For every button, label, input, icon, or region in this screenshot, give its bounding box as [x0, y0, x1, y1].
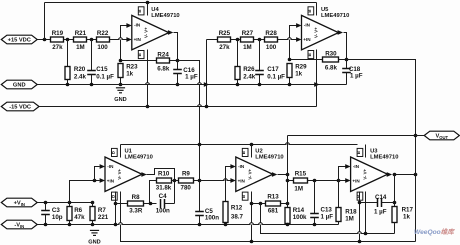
resistor R27 — [241, 37, 254, 42]
wire R30 to C18 node — [339, 59, 347, 61]
node U3 bal stub on rail4 — [358, 240, 362, 244]
svg-text:C15: C15 — [96, 66, 108, 73]
svg-text:100n: 100n — [205, 214, 219, 221]
svg-text:1k: 1k — [126, 71, 133, 78]
svg-text:U2: U2 — [255, 148, 262, 154]
node C5 bottom — [198, 223, 202, 227]
svg-text:6.8k: 6.8k — [157, 66, 170, 73]
wire U1 bal row R8/C4 — [116, 203, 128, 205]
svg-text:C13: C13 — [321, 207, 333, 214]
node R25 branch on -15 rail — [205, 105, 209, 109]
svg-text:R12: R12 — [231, 205, 243, 212]
arrow U4 output — [168, 30, 173, 35]
svg-text:-15 VDC: -15 VDC — [9, 105, 31, 111]
node U3 out / R17 branch — [393, 173, 397, 177]
svg-text:R23: R23 — [126, 64, 138, 71]
ground symbol on -Vin rail — [90, 230, 99, 235]
svg-text:+15 VDC: +15 VDC — [8, 38, 31, 44]
arrow on GND rail at R25 branch — [204, 82, 209, 87]
node C14/R17 junction — [393, 201, 397, 205]
capacitor C17 — [259, 40, 261, 71]
wire -Vin rail — [38, 224, 339, 226]
svg-text:47k: 47k — [74, 214, 85, 221]
node R29 bottom — [288, 83, 292, 87]
wire +15 riser to top rail — [44, 3, 46, 40]
arrow into U4 +IN — [126, 37, 131, 42]
arrow U5 output — [338, 30, 343, 35]
input flag -VIN — [1, 220, 37, 229]
node R21/R22/C15 — [90, 38, 94, 42]
capacitor C15 — [91, 40, 93, 71]
svg-text:B: B — [241, 195, 246, 198]
svg-text:LME49710: LME49710 — [255, 155, 283, 161]
wire R23 feedback riser to U4 -IN — [121, 26, 127, 61]
wire C5 node to U2 +IN — [200, 180, 231, 182]
svg-text:U4: U4 — [151, 7, 159, 13]
wire R25 branch from GND-rail arrow to -15 rail — [206, 40, 208, 107]
svg-text:1M: 1M — [294, 185, 303, 192]
svg-text:C4: C4 — [159, 193, 167, 200]
svg-text:LME49710: LME49710 — [125, 155, 153, 161]
svg-text:1 µF: 1 µF — [374, 208, 387, 215]
resistor R10 — [157, 178, 172, 183]
wire to U3 +IN — [339, 180, 346, 182]
resistor R8 — [128, 201, 144, 206]
node R25/R27/R26 — [236, 38, 240, 42]
wire U4 V+ pin to +15 rail — [147, 3, 149, 16]
svg-text:B: B — [110, 195, 115, 198]
wire R18 riser from +IN row — [338, 181, 340, 208]
hop Vout branch over bal bus — [285, 143, 290, 145]
svg-text:1 µF: 1 µF — [185, 73, 198, 80]
node U1 input bracket — [93, 179, 97, 183]
input flag +VIN — [1, 198, 37, 207]
svg-text:38.7: 38.7 — [231, 213, 244, 220]
wire R28 to U5 +IN — [278, 39, 297, 41]
node R23 top — [119, 59, 123, 63]
hop servo link over -15 rail — [197, 105, 202, 107]
wire R13 branch down to rail3 — [261, 204, 395, 234]
svg-text:V- V+: V- V+ — [313, 27, 318, 38]
node U4 V+ tap on +15 rail — [146, 1, 150, 5]
svg-text:+IN: +IN — [238, 178, 246, 183]
node R30/C18/U5out — [345, 58, 349, 62]
node R15 left — [286, 179, 290, 183]
arrow into U1 -IN — [100, 164, 105, 169]
power flag GND — [1, 80, 37, 89]
arrow into U5 -IN — [296, 23, 301, 28]
resistor R12 — [223, 202, 228, 223]
node C13 bottom — [313, 223, 317, 227]
svg-text:R26: R26 — [243, 66, 255, 73]
wire R12 to -Vin rail — [225, 223, 227, 225]
wire R23/R24 row — [121, 60, 157, 62]
wire R25 feed corner — [207, 39, 218, 41]
svg-text:1k: 1k — [295, 71, 302, 78]
svg-text:100: 100 — [97, 44, 108, 51]
svg-text:-IN: -IN — [134, 23, 141, 28]
svg-text:31.8k: 31.8k — [156, 184, 172, 191]
hop R23 riser over +IN wire — [118, 38, 123, 40]
node R29 top — [288, 58, 292, 62]
svg-text:R30: R30 — [325, 51, 337, 58]
svg-text:1M: 1M — [345, 216, 354, 223]
wire U3 output to Vout bus — [393, 174, 416, 176]
wire R21-R22 — [87, 39, 97, 41]
node R27/R28/C17 — [258, 38, 262, 42]
node R13 row start on U2 V- stub — [250, 202, 254, 206]
node R26 on GND rail — [236, 83, 240, 87]
wire R18 bottom to -Vin rail end — [338, 222, 340, 225]
node C14 tap on U3 bal stub — [358, 201, 362, 205]
hop R13 branch over -Vin rail — [258, 223, 263, 225]
svg-text:V- V+: V- V+ — [117, 168, 122, 179]
svg-text:R25: R25 — [219, 30, 231, 37]
wire R17 branch down — [394, 175, 396, 207]
svg-text:-IN: -IN — [238, 164, 245, 169]
svg-text:V- V+: V- V+ — [362, 168, 367, 179]
node C3 bottom — [44, 223, 48, 227]
wire Vout branch vertical — [287, 136, 289, 208]
resistor R19 — [51, 37, 64, 42]
svg-text:B: B — [356, 195, 361, 198]
svg-text:100k: 100k — [293, 214, 307, 221]
svg-text:LME49710: LME49710 — [370, 155, 398, 161]
resistor R15 — [288, 180, 294, 182]
wire servo link down from R24 node — [178, 61, 200, 145]
wire R9 to C5 node — [194, 180, 200, 182]
node U1 bal stub to R8 — [114, 202, 118, 206]
op-amp U5 — [302, 7, 339, 59]
wire R19-R21 — [64, 39, 74, 41]
svg-text:R27: R27 — [242, 30, 254, 37]
op-amp U2 — [236, 148, 273, 200]
node R24/C16/U4out — [176, 59, 180, 63]
svg-text:R13: R13 — [267, 194, 279, 201]
svg-text:GND: GND — [88, 240, 100, 245]
arrow into U2 -IN — [230, 164, 235, 169]
wire R17 bottom to rail3 end — [394, 223, 396, 234]
svg-text:LME49710: LME49710 — [151, 13, 179, 19]
node R18 top / U3 bracket — [337, 179, 341, 183]
resistor R14 — [285, 208, 290, 224]
svg-text:-IN: -IN — [304, 23, 311, 28]
wire R25-R27 — [231, 39, 241, 41]
node R6 bottom — [68, 223, 72, 227]
op-amp U4 — [132, 7, 169, 59]
node R12 bottom — [224, 223, 228, 227]
wire R15 to C13 node — [308, 180, 339, 182]
wire R27-R28 — [254, 39, 265, 41]
svg-text:V- V+: V- V+ — [248, 168, 253, 179]
svg-text:U1: U1 — [125, 148, 133, 154]
svg-text:LME49710: LME49710 — [321, 13, 349, 19]
svg-text:1M: 1M — [76, 44, 85, 51]
node R20 on GND rail — [66, 83, 70, 87]
wire Vout bus to U2 branch — [288, 135, 416, 137]
capacitor C18 — [346, 60, 348, 69]
node R9/C5/servo — [198, 179, 202, 183]
wire U2 V- pin down to rail4 — [251, 192, 253, 242]
wire U1 V+ pin to bal bus — [120, 145, 122, 158]
svg-text:R18: R18 — [345, 209, 357, 216]
wire R8 to C4 — [144, 203, 157, 205]
resistor R21 — [74, 37, 87, 42]
node R13 right — [286, 202, 290, 206]
svg-text:B: B — [110, 151, 115, 154]
svg-text:10p: 10p — [52, 214, 63, 221]
svg-text:100: 100 — [266, 44, 277, 51]
svg-text:1 µF: 1 µF — [321, 214, 334, 221]
power flag +15 VDC — [1, 35, 37, 44]
svg-text:R21: R21 — [75, 30, 87, 37]
svg-text:-IN: -IN — [353, 164, 360, 169]
svg-text:-VIN: -VIN — [14, 223, 24, 229]
wire U1 bal stub down — [115, 192, 117, 225]
node R23 bottom — [119, 83, 123, 87]
resistor R20 — [67, 40, 69, 67]
wire R12 riser to U2 -IN — [226, 167, 231, 202]
arrow on GND rail at U5 V- — [314, 82, 319, 87]
node U2 out on Vout branch — [286, 173, 290, 177]
svg-text:R9: R9 — [182, 170, 190, 177]
node R13 branch — [259, 202, 263, 206]
hop R12 riser over +IN wire — [223, 179, 228, 181]
wire U2 V+ pin to bal bus — [251, 145, 253, 158]
node R7 top — [91, 201, 95, 205]
svg-text:3.3R: 3.3R — [129, 207, 143, 214]
wire +15V top rail — [45, 2, 317, 4]
resistor R24 — [157, 58, 170, 63]
node U2 V- on rail4 — [250, 240, 254, 244]
svg-text:+VIN: +VIN — [14, 201, 25, 207]
resistor R18 — [336, 208, 341, 222]
wire +Vin rail — [38, 202, 93, 204]
wire U5 V+ pin to +15 rail end — [316, 3, 318, 16]
node C15 on GND rail — [90, 83, 94, 87]
node U4 V- on -15 rail — [146, 105, 150, 109]
svg-text:B: B — [241, 151, 246, 154]
svg-text:VOUT: VOUT — [435, 134, 448, 140]
node U2 V+ on bal bus — [250, 143, 254, 147]
wire R10 left drop to R8/C4 node — [150, 181, 157, 204]
wire R29 to GND rail — [289, 78, 291, 85]
wire U3 V- pin to rail3 — [365, 192, 367, 234]
svg-text:0.1 µF: 0.1 µF — [96, 73, 114, 80]
svg-text:1 µF: 1 µF — [350, 73, 363, 80]
node U3 out on Vout bus — [414, 173, 418, 177]
svg-text:221: 221 — [98, 214, 109, 221]
wire U5 V- pin to -15 rail end — [316, 50, 318, 107]
wire R29/R30 row — [290, 59, 323, 61]
arrow into U2 +IN — [230, 178, 235, 183]
node C17 on GND rail — [258, 83, 262, 87]
arrow into U5 +IN — [296, 37, 301, 42]
node R19/R21/R20 — [66, 38, 70, 42]
svg-text:R10: R10 — [158, 170, 170, 177]
arrow into U3 +IN — [345, 178, 350, 183]
resistor R6 — [69, 203, 71, 207]
wire R13 row — [252, 203, 266, 205]
svg-text:R15: R15 — [295, 170, 307, 177]
svg-text:V- V+: V- V+ — [144, 27, 149, 38]
ground symbol below R23 — [116, 88, 125, 93]
svg-text:U5: U5 — [321, 7, 329, 13]
resistor R22 — [97, 37, 110, 42]
node R7 bottom — [91, 223, 95, 227]
hop servo link over GND rail — [197, 83, 202, 85]
wire +15 VDC flag to R19 — [38, 39, 51, 41]
wire U4 V- pin to -15 rail — [147, 50, 149, 107]
svg-text:B: B — [137, 53, 142, 56]
svg-text:U3: U3 — [370, 148, 378, 154]
svg-text:R24: R24 — [157, 51, 169, 58]
svg-text:B: B — [307, 53, 312, 56]
node C3 top — [44, 201, 48, 205]
svg-text:+IN: +IN — [107, 178, 115, 183]
hop R29 riser over +IN wire — [287, 38, 292, 40]
svg-text:R29: R29 — [295, 64, 307, 71]
wire servo link bus to R9 node — [199, 145, 201, 181]
wire U5 output to R30/C18 node — [344, 33, 347, 60]
wire U3 V+ pin to bal bus end — [365, 145, 367, 158]
svg-text:GND: GND — [114, 97, 126, 103]
wire GND rail — [38, 84, 347, 86]
wire U1 V- pin down to rail4 — [121, 192, 416, 242]
hop U3 bal stub over rail3 — [357, 232, 362, 234]
resistor R28 — [265, 37, 278, 42]
wire U1 output bridge over R10 — [147, 169, 175, 204]
hop U2 V- over -Vin rail — [249, 223, 254, 225]
capacitor C14 — [360, 202, 378, 204]
wire C4 to R10 right node — [165, 203, 175, 205]
resistor R17 — [392, 207, 397, 223]
wire R22 to U4 +IN — [110, 39, 127, 41]
svg-text:27k: 27k — [219, 44, 230, 51]
wire U4 output to R24/C16 node — [174, 33, 178, 61]
svg-text:R28: R28 — [265, 30, 277, 37]
wire -15 rail — [40, 106, 317, 108]
wire bracket to U1 -IN — [95, 167, 100, 181]
svg-text:-IN: -IN — [107, 164, 114, 169]
node C13 top — [313, 179, 317, 183]
capacitor C5 — [199, 181, 201, 212]
wire bracket to U3 -IN — [339, 167, 346, 181]
svg-text:100n: 100n — [156, 207, 170, 214]
capacitor C16 — [177, 61, 179, 70]
arrow U2 output — [272, 172, 277, 177]
svg-text:681: 681 — [268, 208, 279, 215]
capacitor C13 — [314, 181, 316, 214]
svg-text:1M: 1M — [243, 44, 252, 51]
node servo link on bal bus — [198, 143, 202, 147]
svg-text:GND: GND — [13, 83, 26, 89]
op-amp U1 — [105, 148, 142, 200]
svg-text:0.1 µF: 0.1 µF — [267, 73, 285, 80]
svg-text:6.8k: 6.8k — [325, 65, 338, 72]
wire U3 bal stub down to rail4 — [359, 192, 361, 242]
svg-text:27k: 27k — [52, 44, 63, 51]
svg-text:C17: C17 — [267, 66, 279, 73]
node C16 on GND rail — [176, 83, 180, 87]
wire bal bus — [121, 144, 358, 146]
svg-text:R14: R14 — [293, 207, 305, 214]
node U3 V- on rail3 — [364, 232, 368, 236]
svg-text:+IN: +IN — [352, 178, 360, 183]
svg-text:C14: C14 — [375, 194, 387, 201]
resistor R29 — [287, 64, 292, 78]
wire U2 output to Vout branch — [278, 174, 288, 176]
resistor R30 — [323, 57, 339, 62]
node U1 bal stub on -Vin rail — [114, 223, 118, 227]
svg-text:R8: R8 — [132, 194, 140, 201]
output flag VOUT — [424, 131, 459, 140]
svg-text:+IN: +IN — [134, 37, 142, 42]
arrow into U3 -IN — [345, 164, 350, 169]
wire servo2 output to Vout bus — [347, 60, 416, 175]
resistor R13 — [266, 201, 281, 206]
resistor R7 — [92, 203, 94, 207]
svg-text:R19: R19 — [52, 30, 64, 37]
wire Vout flag lead — [416, 135, 425, 137]
wire R14 to -Vin rail — [287, 224, 289, 225]
svg-text:B: B — [137, 9, 142, 12]
node Vout flag tap — [414, 134, 418, 138]
wire Vout bus vertical — [415, 60, 417, 242]
node R14 bottom — [286, 223, 290, 227]
node R8/C4/R10 — [149, 202, 153, 206]
resistor R25 — [218, 37, 231, 42]
capacitor C3 — [45, 203, 47, 211]
svg-text:B: B — [307, 9, 312, 12]
arrow into U4 -IN — [126, 23, 131, 28]
op-amp U3 — [351, 148, 388, 200]
node R6 top / riser — [68, 201, 72, 205]
arrow U1 output — [141, 172, 146, 177]
power flag -15 VDC — [1, 102, 39, 111]
svg-text:R20: R20 — [74, 66, 86, 73]
wire +Vin riser to U1 +IN — [70, 181, 100, 203]
hop U1 V- over -Vin rail — [118, 223, 123, 225]
capacitor C4 — [161, 199, 165, 208]
svg-text:2.4k: 2.4k — [74, 73, 87, 80]
svg-text:R17: R17 — [402, 207, 414, 214]
resistor R23 — [118, 64, 123, 78]
resistor R26 — [237, 40, 239, 67]
svg-text:+IN: +IN — [303, 37, 311, 42]
arrow into U1 +IN — [100, 178, 105, 183]
svg-text:WeeQoo维库: WeeQoo维库 — [414, 228, 455, 236]
svg-text:2.4k: 2.4k — [243, 73, 256, 80]
svg-text:R22: R22 — [97, 30, 109, 37]
hop U4 V- over GND rail — [145, 83, 150, 85]
svg-text:B: B — [356, 151, 361, 154]
svg-text:780: 780 — [181, 184, 192, 191]
node R10/R9/C4 junction — [173, 179, 177, 183]
wire R13 to Vout branch — [281, 203, 288, 205]
resistor R9 — [172, 180, 179, 182]
wire R23 to GND rail — [120, 78, 122, 85]
wire R24 to C16 node — [170, 60, 178, 62]
svg-text:1k: 1k — [403, 214, 410, 221]
node +15 junction — [43, 38, 47, 42]
wire R29 feedback riser to U5 -IN — [290, 26, 297, 60]
arrow U3 output — [387, 172, 392, 177]
